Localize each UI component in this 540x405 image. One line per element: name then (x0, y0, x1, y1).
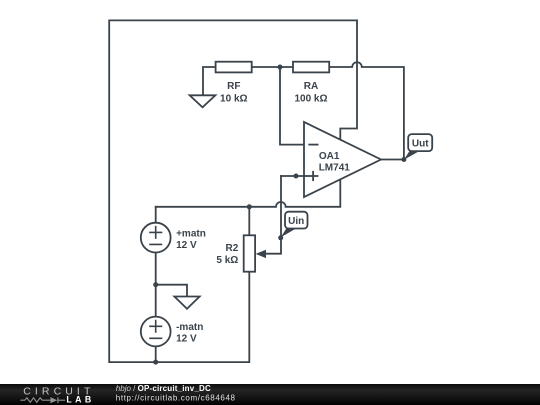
voltage source +matn polarity marks (149, 226, 162, 245)
potentiometer R2 wiper arrowhead (256, 250, 266, 258)
node R2 top / supply rail (247, 204, 252, 209)
wire RF right lead to RA (252, 66, 293, 68)
node flag Uin (281, 212, 308, 238)
wire from top frame down to op-amp V pin (top) (340, 20, 357, 139)
svg-text:OA1: OA1 (319, 151, 340, 162)
svg-text:Uin: Uin (288, 216, 304, 227)
wire R2 top lead (248, 207, 250, 236)
voltage source -matn circle body (141, 317, 171, 347)
logo waveform diode arrowhead (50, 397, 57, 403)
flag Uut box (408, 134, 432, 151)
svg-text:LM741: LM741 (319, 163, 351, 174)
flag Uin pointer tail (281, 229, 296, 238)
svg-text:-matn: -matn (176, 322, 203, 333)
wire inverting input from RF/RA node (280, 67, 304, 145)
resistor RF body (216, 62, 252, 73)
wire RF left lead to ground (203, 67, 216, 95)
wire +matn top lead (155, 207, 157, 223)
wire outer frame: top rail, left rail, bottom rail up to R2 (109, 20, 357, 362)
svg-text:R2: R2 (226, 243, 239, 254)
node RF/RA junction (278, 65, 283, 70)
wire Uin node vertical down to wiper (266, 176, 281, 254)
svg-text:Uut: Uut (412, 139, 429, 150)
op-amp OA1 (304, 122, 381, 197)
potentiometer R2 body (244, 235, 255, 271)
svg-text:RF: RF (227, 81, 240, 92)
svg-text:RA: RA (304, 81, 318, 92)
svg-text:hbjo / OP-circuit_inv_DC: hbjo / OP-circuit_inv_DC (116, 384, 211, 393)
wire +matn bottom lead to -matn top (155, 253, 157, 317)
node ground tee (153, 282, 158, 287)
voltage source +matn (141, 223, 206, 253)
resistor RA (293, 62, 329, 105)
svg-text:http://circuitlab.com/c684648: http://circuitlab.com/c684648 (116, 393, 236, 402)
node flag Uut (404, 134, 432, 160)
op-amp OA1 triangle body (304, 122, 381, 197)
inverting input marker (-) (308, 144, 318, 146)
wire non-inverting input (281, 175, 318, 177)
node Uin (278, 235, 283, 240)
potentiometer R2 (216, 235, 266, 271)
wire positive supply rail with hop over Uin wire, to op-amp V pin (bottom) (156, 179, 341, 207)
flag Uin box (285, 212, 308, 229)
svg-text:10 kΩ: 10 kΩ (220, 93, 247, 104)
svg-text:12 V: 12 V (176, 240, 197, 251)
ground GND2 between sources (174, 297, 199, 309)
node Uut output (401, 157, 406, 162)
logo waveform (20, 397, 65, 403)
voltage source +matn circle body (141, 223, 171, 253)
svg-text:+matn: +matn (176, 228, 206, 239)
resistor RF (216, 62, 252, 105)
wire RA right lead with hop, down to output node (329, 62, 404, 159)
ground GND1 below RF (190, 95, 216, 107)
wire ground tee between sources (156, 285, 187, 297)
voltage source -matn (141, 317, 204, 347)
footer bar background (0, 384, 540, 405)
wire -matn bottom lead (155, 347, 157, 363)
flag Uut pointer tail (404, 151, 420, 160)
svg-text:12 V: 12 V (176, 334, 197, 345)
node -matn bottom (153, 360, 158, 365)
non-inverting input marker (+) (304, 175, 318, 177)
resistor RA body (293, 62, 329, 73)
svg-text:5 kΩ: 5 kΩ (216, 255, 238, 266)
voltage source -matn polarity marks (149, 320, 162, 339)
svg-text:100 kΩ: 100 kΩ (294, 93, 327, 104)
wire op-amp output (381, 159, 404, 161)
node noninverting input (294, 174, 299, 179)
svg-text:LAB: LAB (66, 395, 94, 405)
